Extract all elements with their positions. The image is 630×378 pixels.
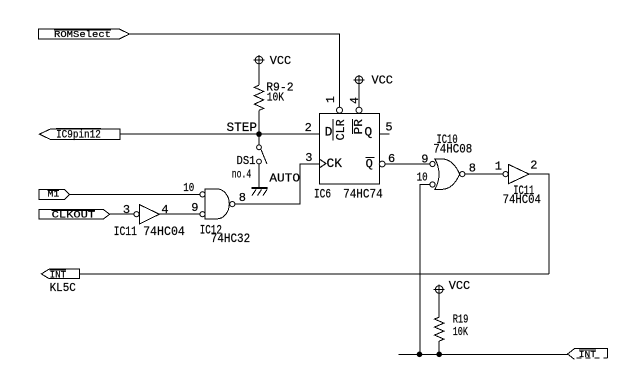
wire INT horizontal	[79, 273, 549, 275]
net label INT (left)	[41, 269, 79, 281]
net label ROMSelect	[39, 29, 130, 40]
ground	[252, 188, 268, 196]
wire inverter to IC12 pin 9	[159, 213, 200, 215]
svg-text:5: 5	[385, 120, 392, 134]
svg-text:74HC74: 74HC74	[343, 186, 383, 201]
svg-text:IC6: IC6	[314, 186, 331, 201]
svg-text:STEP: STEP	[227, 120, 258, 135]
wire M1 to IC12 pin 10	[70, 193, 200, 195]
svg-text:74HC04: 74HC04	[503, 192, 541, 207]
wire switch to ground	[258, 164, 260, 187]
wire STEP junction to switch	[258, 134, 260, 145]
wire IC10 output to IC11	[465, 173, 503, 175]
svg-text:IC9pin12: IC9pin12	[56, 130, 101, 142]
svg-text:CLR: CLR	[334, 119, 348, 140]
node STEP junction	[256, 131, 262, 137]
net label IC9pin12	[40, 128, 121, 141]
op IC6 74HC74 flip-flop body	[320, 114, 380, 185]
svg-text:IC11: IC11	[114, 224, 138, 239]
pin label CLR (rotated, overline)	[333, 119, 348, 140]
wire IC12 output to IC6 CK	[235, 164, 320, 204]
pin CK chevron	[320, 160, 326, 168]
svg-text:3: 3	[305, 151, 312, 165]
wire IC9pin12 / STEP to IC6 pin 2	[120, 133, 320, 135]
svg-text:74HC08: 74HC08	[433, 142, 472, 157]
net label INT (bottom right, dashed)	[568, 349, 608, 360]
power VCC (R19 top)	[434, 280, 471, 294]
svg-text:VCC: VCC	[449, 280, 470, 293]
wire R19 to bottom line	[438, 341, 440, 354]
svg-text:D: D	[325, 125, 333, 140]
svg-text:Q: Q	[364, 125, 372, 140]
wire VCC to R9-2	[258, 64, 260, 85]
svg-text:74HC04: 74HC04	[143, 224, 185, 239]
wire IC11 output to INT line	[529, 174, 549, 274]
svg-text:no.4: no.4	[232, 168, 252, 182]
resistor R9-2 10K	[254, 82, 293, 111]
wire VCC to PR	[358, 84, 360, 108]
svg-text:2: 2	[305, 121, 312, 135]
svg-text:8: 8	[239, 191, 246, 205]
net label M1	[39, 190, 69, 200]
svg-text:INT: INT	[579, 350, 597, 360]
svg-text:Q: Q	[366, 157, 373, 171]
wire VCC to R19	[438, 293, 440, 317]
pin label Qbar (rotated, overline)	[366, 157, 375, 171]
pin label PR (rotated, overline)	[352, 119, 366, 135]
op IC11 inverter (right)	[503, 164, 529, 183]
svg-text:6: 6	[388, 152, 395, 166]
svg-text:KL5C: KL5C	[50, 281, 76, 295]
svg-text:M1: M1	[48, 190, 60, 200]
node junction (R19)	[436, 352, 442, 358]
svg-text:10: 10	[183, 181, 194, 195]
svg-text:CK: CK	[327, 156, 343, 171]
svg-text:VCC: VCC	[270, 55, 291, 68]
pin 5 stub (Q)	[379, 133, 389, 135]
svg-text:10K: 10K	[267, 91, 284, 104]
svg-text:1: 1	[325, 96, 338, 103]
power VCC (IC6 PR)	[354, 75, 393, 88]
wire CLKOUT to inverter	[110, 213, 134, 215]
op IC10 74HC08 gate	[430, 159, 465, 190]
svg-text:1: 1	[495, 160, 502, 174]
node junction (vertical)	[417, 352, 423, 358]
wire ROMSelect to IC6 CLR	[130, 34, 340, 107]
op IC11 inverter (left)	[134, 205, 159, 224]
svg-text:VCC: VCC	[372, 75, 393, 88]
wire R9-2 to STEP junction	[258, 111, 260, 135]
switch DS1 no.4	[232, 145, 267, 182]
pin Qbar bubble	[379, 161, 385, 167]
wire Qbar to IC10 pin 9	[385, 163, 430, 165]
svg-text:10K: 10K	[453, 326, 468, 339]
net label CLKOUT	[39, 210, 110, 222]
svg-text:CLKOUT: CLKOUT	[52, 210, 96, 221]
svg-text:R19: R19	[453, 314, 469, 327]
svg-text:9: 9	[421, 153, 428, 167]
op IC12 74HC32 gate	[200, 189, 235, 219]
svg-text:ROMSelect: ROMSelect	[54, 30, 111, 40]
wire bottom INT	[399, 353, 568, 355]
svg-text:74HC32: 74HC32	[211, 231, 250, 246]
svg-text:4: 4	[161, 203, 168, 217]
pin CLR bubble	[337, 107, 343, 113]
svg-text:4: 4	[349, 97, 362, 104]
svg-text:8: 8	[469, 161, 476, 175]
svg-text:10: 10	[417, 170, 428, 184]
pin PR bubble	[356, 107, 362, 113]
svg-text:9: 9	[191, 201, 198, 215]
svg-text:INT: INT	[50, 270, 67, 281]
svg-text:3: 3	[123, 203, 130, 217]
svg-text:AUTO: AUTO	[269, 172, 300, 186]
svg-text:2: 2	[530, 158, 537, 172]
power VCC (R9-2 top)	[254, 55, 292, 68]
resistor R19 10K	[435, 314, 469, 342]
svg-text:DS1: DS1	[237, 154, 256, 168]
wire IC10 pin 10 down	[420, 185, 430, 355]
